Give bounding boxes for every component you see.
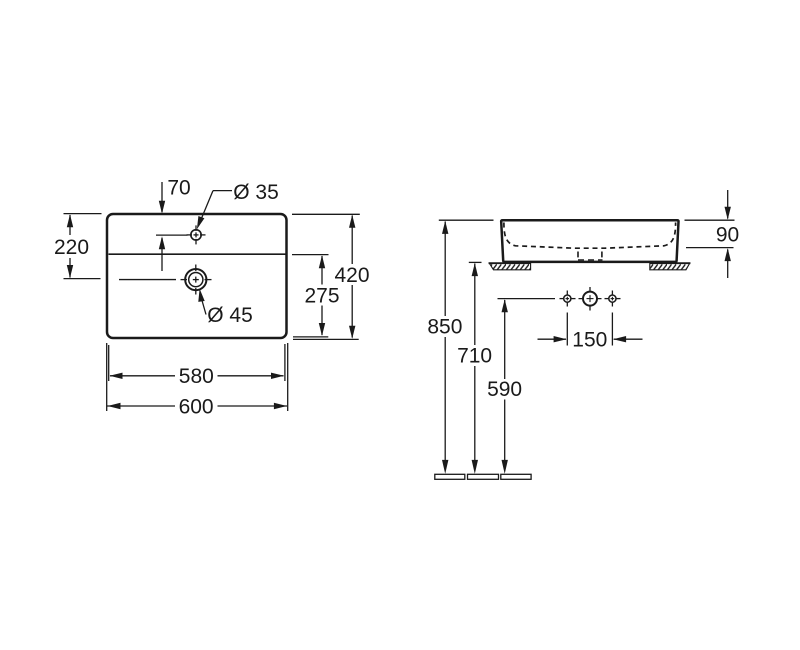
dimension 710 line and arrows [472, 263, 478, 474]
dimension 850 line and arrows [442, 221, 448, 474]
dimension 70 lower arrow and tick [156, 235, 188, 271]
right fixing hole circle [609, 295, 616, 302]
dimension 220 extension lines [64, 214, 102, 279]
svg-text:590: 590 [487, 378, 522, 401]
centre faucet hole circle [583, 292, 597, 306]
dimension 90 line and arrows [725, 190, 731, 278]
dimension 70 upper line and arrow [159, 182, 165, 214]
svg-text:420: 420 [334, 264, 369, 287]
drain hole outer circle [185, 269, 206, 290]
leader line for diameter 35 [197, 191, 232, 230]
left fixing hole crosshair [560, 291, 576, 307]
side-view inner bowl dashed line [504, 223, 676, 249]
faucet hole circle [191, 230, 201, 240]
floor bar left [435, 474, 465, 479]
drain hidden bottom dashes [578, 259, 603, 261]
basin side-view outline [501, 220, 678, 262]
dimension 90 extension lines [685, 220, 735, 247]
holes centerline [498, 298, 556, 300]
basin top-view outline [107, 214, 287, 338]
dimension 275 line and arrows [319, 255, 325, 336]
svg-text:850: 850 [427, 315, 462, 338]
drain centerline [119, 279, 176, 281]
svg-text:Ø 45: Ø 45 [207, 304, 253, 327]
dimension 600 extension lines [107, 343, 288, 411]
dimension 275 extension lines [292, 254, 329, 256]
countertop right hatched strip [650, 263, 691, 270]
svg-text:150: 150 [572, 328, 607, 351]
dimension 150 extension lines [567, 313, 612, 346]
dimension 420 extension lines [292, 214, 360, 339]
svg-text:220: 220 [54, 236, 89, 259]
dimension 580 line and arrows [110, 373, 285, 379]
svg-text:Ø 35: Ø 35 [233, 181, 279, 204]
dimension 600 line and arrows [107, 403, 287, 409]
dimension 590 line and arrows [502, 299, 508, 474]
svg-text:70: 70 [167, 177, 190, 200]
drain hole crosshair [181, 265, 212, 295]
floor bar middle [468, 474, 499, 479]
basin deck divider line [109, 253, 286, 255]
side-view drain dashed lines [578, 252, 602, 258]
svg-text:90: 90 [716, 223, 739, 246]
floor bar right [501, 474, 531, 479]
svg-text:580: 580 [179, 365, 214, 388]
svg-text:600: 600 [179, 395, 214, 418]
svg-text:710: 710 [457, 345, 492, 368]
faucet hole crosshair [187, 225, 206, 244]
dimension 580 extension lines [109, 344, 285, 381]
dimension 150 line and arrows [538, 336, 643, 342]
centre faucet hole crosshair [579, 287, 602, 311]
leader line for diameter 45 [198, 289, 206, 315]
dimension 220 line and arrows [67, 214, 73, 278]
dimension 420 line and arrows [349, 215, 355, 339]
dimension 850 extension line [439, 219, 494, 221]
drain hole inner circle [189, 273, 203, 287]
svg-text:275: 275 [304, 284, 339, 307]
countertop left hatched strip [489, 263, 531, 270]
left fixing hole circle [564, 295, 571, 302]
right fixing hole crosshair [605, 291, 621, 307]
dimension 710 extension line [469, 261, 482, 263]
